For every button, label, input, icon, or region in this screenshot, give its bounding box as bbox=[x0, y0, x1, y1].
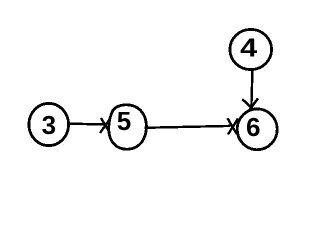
arrowhead of edge 3 to 5 bbox=[100, 118, 111, 133]
svg-text:3: 3 bbox=[42, 110, 56, 140]
node 4 circle bbox=[230, 29, 272, 69]
wire edge 5 to 6 bbox=[144, 126, 230, 128]
wire edge 4 to 6 bbox=[251, 71, 252, 107]
wire edge 3 to 5 bbox=[67, 122, 106, 125]
svg-text:4: 4 bbox=[240, 34, 257, 63]
arrowhead of edge 5 to 6 bbox=[228, 118, 239, 134]
node 5 circle bbox=[109, 105, 147, 149]
svg-text:5: 5 bbox=[117, 106, 131, 136]
svg-text:6: 6 bbox=[246, 112, 260, 142]
node 3 circle bbox=[29, 103, 69, 145]
node 6 circle bbox=[237, 109, 277, 150]
arrowhead of edge 4 to 6 bbox=[242, 98, 258, 109]
